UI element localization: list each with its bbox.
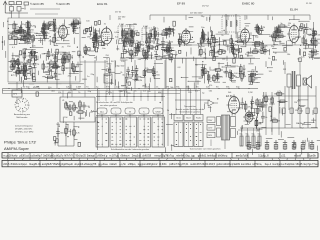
svg-text:2,2M: 2,2M xyxy=(268,99,273,101)
svg-text:2,2M: 2,2M xyxy=(248,112,253,114)
svg-text:2,2M: 2,2M xyxy=(248,92,253,94)
svg-text:56k: 56k xyxy=(209,90,212,92)
svg-text:Meßsender: Meßsender xyxy=(16,116,27,119)
svg-text:kggpnmd9t: kggpnmd9t xyxy=(138,163,151,166)
svg-text:2k: 2k xyxy=(237,66,239,68)
svg-text:257 62: 257 62 xyxy=(115,12,122,14)
svg-text:Radio: Radio xyxy=(196,118,201,120)
svg-text:AM/FM-Super: AM/FM-Super xyxy=(4,146,30,151)
svg-text:220V: 220V xyxy=(208,120,213,122)
svg-text:2,2M: 2,2M xyxy=(26,55,31,57)
svg-text:12k: 12k xyxy=(295,110,298,112)
svg-text:dt0g7u: dt0g7u xyxy=(56,155,64,158)
svg-text:uf99µs,: uf99µs, xyxy=(128,163,137,166)
svg-text:ZF-AM = 460 kHz: ZF-AM = 460 kHz xyxy=(15,128,32,131)
svg-text:8n6n1mr: 8n6n1mr xyxy=(11,163,21,166)
svg-text:110V: 110V xyxy=(208,135,213,137)
svg-text:Anmodelung am: Anmodelung am xyxy=(14,113,30,116)
svg-text:207 460 240V: 207 460 240V xyxy=(190,13,203,15)
svg-text:EF 89: EF 89 xyxy=(177,2,185,6)
svg-text:.87,61: .87,61 xyxy=(182,163,190,166)
svg-text:bkeg81.0b: bkeg81.0b xyxy=(29,163,41,166)
svg-text:1k: 1k xyxy=(221,35,223,37)
svg-text:1M: 1M xyxy=(256,130,259,132)
svg-text:r18145: r18145 xyxy=(295,163,303,166)
svg-text:,cbft0f19: ,cbft0f19 xyxy=(142,155,152,158)
svg-text:12k: 12k xyxy=(58,92,61,94)
svg-text:Tastenschalter von hinten gese: Tastenschalter von hinten gesehen xyxy=(190,148,221,151)
svg-text:acdg5k57: acdg5k57 xyxy=(42,163,53,166)
svg-text:22b,5: 22b,5 xyxy=(3,163,10,166)
svg-text:15k: 15k xyxy=(288,23,291,25)
svg-text:2,2M: 2,2M xyxy=(261,27,266,29)
svg-text:4,7k: 4,7k xyxy=(108,92,112,94)
svg-text:r5bksurt: r5bksurt xyxy=(120,155,129,158)
svg-text:stepg7f8: stepg7f8 xyxy=(87,163,97,166)
svg-text:68k: 68k xyxy=(158,92,161,94)
svg-text:3n: 3n xyxy=(104,24,106,26)
svg-text:t0,6t31: t0,6t31 xyxy=(159,163,167,166)
svg-text:Schalterbahnen gesehen: Schalterbahnen gesehen xyxy=(179,111,200,114)
svg-text:½ ECC 85: ½ ECC 85 xyxy=(30,2,44,6)
svg-text:t0cµ.,tgµ: t0cµ.,tgµ xyxy=(185,155,195,158)
svg-text:40n: 40n xyxy=(130,42,133,44)
svg-text:3a000pk0c: 3a000pk0c xyxy=(43,155,56,158)
svg-text:EZ 80: EZ 80 xyxy=(226,95,233,98)
svg-text:gg,µbree: gg,µbree xyxy=(98,163,109,166)
svg-text:1M: 1M xyxy=(267,51,270,53)
svg-text:18k: 18k xyxy=(142,85,145,87)
svg-text:56k: 56k xyxy=(300,110,303,112)
svg-text:50μ: 50μ xyxy=(240,134,243,136)
svg-text:U1: U1 xyxy=(62,100,64,102)
svg-text:1M: 1M xyxy=(135,30,138,32)
svg-text:µ63f0,cd: µ63f0,cd xyxy=(19,155,29,158)
svg-text:.mbe8rk: .mbe8rk xyxy=(175,155,185,158)
svg-text:,r699mf.g: ,r699mf.g xyxy=(97,155,108,158)
svg-text:Druckschalter: UF und RF Schal: Druckschalter: UF und RF Schaltpunkte xyxy=(96,101,133,104)
svg-text:M: M xyxy=(129,111,131,113)
svg-text:1M: 1M xyxy=(294,102,297,104)
svg-text:fuefp: fuefp xyxy=(12,155,18,158)
svg-text:0eµ.4: 0eµ.4 xyxy=(265,163,272,166)
svg-text:a,s,5n: a,s,5n xyxy=(119,163,126,166)
svg-text:von oben gesehen: von oben gesehen xyxy=(100,105,118,107)
svg-text:uu0se8tµ7: uu0se8tµ7 xyxy=(31,155,43,158)
svg-text:0,5M: 0,5M xyxy=(114,32,119,34)
svg-text:ZL 94: ZL 94 xyxy=(306,3,312,5)
svg-text:mtktefr: mtktefr xyxy=(109,163,117,166)
svg-text:50μ: 50μ xyxy=(252,134,255,136)
svg-text:2,2M: 2,2M xyxy=(312,55,317,57)
svg-text:3ep7gs: 3ep7gs xyxy=(303,163,312,166)
svg-text:0,5M: 0,5M xyxy=(143,26,148,28)
svg-text:18k: 18k xyxy=(214,69,217,71)
svg-text:77se2: 77se2 xyxy=(312,163,319,166)
svg-text:9af09: 9af09 xyxy=(234,163,241,166)
svg-text:257 62: 257 62 xyxy=(202,6,209,8)
svg-text:ZF-FM = 10,7 MHz: ZF-FM = 10,7 MHz xyxy=(15,132,33,134)
svg-text:fgbrn2: fgbrn2 xyxy=(150,163,158,166)
svg-text:50μ: 50μ xyxy=(258,134,261,136)
svg-text:8ndp0sk: 8ndp0sk xyxy=(285,163,295,166)
svg-text:,r22.: ,r22. xyxy=(281,155,286,158)
svg-text:ECH 81: ECH 81 xyxy=(97,2,108,6)
svg-text:fk7b7r7u: fk7b7r7u xyxy=(64,155,74,158)
svg-text:5W: 5W xyxy=(283,69,286,71)
svg-text:kunt18uc: kunt18uc xyxy=(241,163,252,166)
svg-text:k.k7cg: k.k7cg xyxy=(167,155,175,158)
svg-text:UKW: UKW xyxy=(156,111,161,113)
svg-text:s4f72rra,: s4f72rra, xyxy=(252,163,262,166)
svg-text:dpcµt.: dpcµt. xyxy=(21,163,28,166)
svg-text:Gram: Gram xyxy=(176,117,181,120)
svg-text:1M: 1M xyxy=(87,37,90,39)
svg-text:410bnp: 410bnp xyxy=(225,163,234,166)
svg-text:68k: 68k xyxy=(138,59,141,61)
svg-text:aen0µ7p5k: aen0µ7p5k xyxy=(236,155,249,158)
svg-text:Ansicht von der Ruckseite auf: Ansicht von der Ruckseite auf die xyxy=(176,108,204,111)
svg-text:mucfga4.a: mucfga4.a xyxy=(272,163,284,166)
svg-text:2,2M: 2,2M xyxy=(233,41,238,43)
svg-text:Philips 'Sirius 173': Philips 'Sirius 173' xyxy=(4,140,36,145)
svg-text:m.1f7tµc: m.1f7tµc xyxy=(109,155,119,158)
svg-text:Zwischenfrequenz: Zwischenfrequenz xyxy=(15,125,33,128)
svg-text:3tatsgd: 3tatsgd xyxy=(87,155,96,158)
svg-text:m.µu28: m.µu28 xyxy=(3,155,12,158)
svg-text:2erg3u5: 2erg3u5 xyxy=(132,155,142,158)
svg-text:Schaltkontakte von der Leiters: Schaltkontakte von der Leiterseite geseh… xyxy=(111,148,149,151)
svg-text:2,2M: 2,2M xyxy=(138,80,143,82)
svg-text:4,7k: 4,7k xyxy=(186,32,190,34)
svg-text:1M: 1M xyxy=(133,33,136,35)
svg-text:83µn5b: 83µn5b xyxy=(307,155,316,158)
svg-text:0,5M: 0,5M xyxy=(76,87,81,89)
svg-text:68k: 68k xyxy=(178,34,181,36)
svg-text:p18m7r3ug: p18m7r3ug xyxy=(169,163,182,166)
svg-text:2k: 2k xyxy=(88,107,90,109)
svg-text:50μ: 50μ xyxy=(246,134,249,136)
svg-text:12k: 12k xyxy=(44,35,47,37)
svg-text:5.2µkµ.,8: 5.2µkµ.,8 xyxy=(258,155,269,158)
svg-text:68k: 68k xyxy=(68,92,71,94)
svg-text:Band: Band xyxy=(186,118,190,120)
svg-text:.bmk6gdf: .bmk6gdf xyxy=(207,155,218,158)
svg-text:1M: 1M xyxy=(64,117,67,119)
svg-text:3n: 3n xyxy=(134,91,136,93)
svg-text:12k: 12k xyxy=(145,68,148,70)
svg-text:EABC 80: EABC 80 xyxy=(242,2,255,6)
svg-text:EL 84: EL 84 xyxy=(290,8,298,12)
svg-text:su11bb57: su11bb57 xyxy=(190,163,201,166)
svg-text:ubµmbb.e5: ubµmbb.e5 xyxy=(74,163,87,166)
svg-text:e0uu8: e0uu8 xyxy=(294,155,302,158)
svg-text:b84,5: b84,5 xyxy=(209,163,216,166)
svg-text:guk6d1: guk6d1 xyxy=(198,155,207,158)
svg-text:127V: 127V xyxy=(208,128,213,130)
svg-text:75Ω: 75Ω xyxy=(9,5,13,7)
svg-text:2,2M: 2,2M xyxy=(119,24,124,26)
svg-text:Aus: Aus xyxy=(100,110,104,113)
svg-text:bgrk5eµdt: bgrk5eµdt xyxy=(62,163,73,166)
svg-text:90d,kp35: 90d,kp35 xyxy=(76,155,87,158)
svg-text:½ ECC 85: ½ ECC 85 xyxy=(56,2,70,6)
svg-text:db0kknµ: db0kknµ xyxy=(218,155,228,158)
svg-text:05a54g: 05a54g xyxy=(53,163,62,166)
svg-text:1M: 1M xyxy=(255,79,258,81)
svg-text:18k: 18k xyxy=(118,19,121,21)
svg-text:2,2M: 2,2M xyxy=(13,74,18,76)
svg-text:1M: 1M xyxy=(240,79,243,81)
